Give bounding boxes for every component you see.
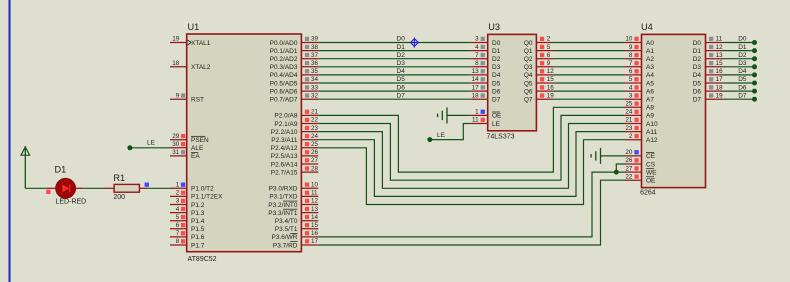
svg-text:D2: D2: [738, 52, 747, 59]
svg-text:23: 23: [311, 125, 319, 132]
svg-text:6: 6: [547, 52, 551, 59]
junction dot net D7: [752, 97, 757, 102]
svg-text:2: 2: [547, 36, 551, 43]
svg-text:2: 2: [176, 190, 180, 197]
wire power to LED anode: [25, 187, 47, 189]
U3 left pin state squares: [481, 37, 485, 122]
power terminal (up arrow): [21, 146, 30, 188]
svg-text:D5: D5: [738, 76, 747, 83]
svg-text:31: 31: [172, 149, 180, 156]
wire net D0: U1 P0.0 to U3 D0: [318, 42, 471, 44]
svg-text:A6: A6: [646, 88, 654, 95]
svg-text:34: 34: [311, 76, 319, 83]
svg-text:25: 25: [311, 141, 319, 148]
svg-text:D3: D3: [492, 64, 501, 71]
svg-text:13: 13: [472, 68, 480, 75]
wire net D2: U1 P0.2 to U3 D2: [318, 58, 471, 60]
IC U4 6264 body: [642, 34, 706, 187]
IC U1 AT89C52 body: [187, 34, 302, 252]
wire net D1 at U4 right: [723, 50, 755, 52]
svg-text:18: 18: [472, 92, 480, 99]
svg-text:OE: OE: [492, 113, 502, 120]
U4 left pin stubs: [625, 43, 642, 181]
U1 clock marker on XTAL1: [188, 40, 192, 45]
svg-text:P3.3/INT1: P3.3/INT1: [268, 210, 298, 217]
svg-text:P1.7: P1.7: [191, 242, 205, 249]
svg-text:9: 9: [629, 44, 633, 51]
svg-text:19: 19: [716, 92, 724, 99]
svg-text:11: 11: [716, 36, 723, 43]
svg-text:D5: D5: [397, 76, 406, 83]
svg-text:D0: D0: [693, 40, 702, 47]
svg-text:D3: D3: [693, 64, 702, 71]
wire net Q4: U3 Q4 to U4 A4: [553, 74, 625, 76]
junction dot WE/CS node: [614, 170, 619, 175]
U1 right pin state squares: [305, 37, 309, 244]
svg-text:P0.1/AD1: P0.1/AD1: [270, 48, 298, 55]
wire net LE at U1 ALE pin: [130, 147, 170, 149]
svg-text:4: 4: [475, 44, 479, 51]
svg-text:7: 7: [176, 230, 180, 237]
svg-text:P1.2: P1.2: [191, 202, 205, 209]
svg-text:6264: 6264: [640, 190, 656, 197]
svg-text:Q7: Q7: [524, 97, 533, 104]
svg-text:D3: D3: [738, 60, 747, 67]
svg-text:A8: A8: [646, 105, 654, 112]
svg-text:26: 26: [311, 149, 319, 156]
svg-text:Q1: Q1: [524, 48, 533, 55]
svg-text:8: 8: [475, 60, 479, 67]
svg-text:LED-RED: LED-RED: [56, 199, 87, 206]
svg-text:P1.4: P1.4: [191, 218, 205, 225]
resistor R1: [105, 184, 148, 192]
svg-text:Q2: Q2: [524, 56, 533, 63]
svg-text:16: 16: [716, 68, 724, 75]
wire R1 to U1 P1.0: [148, 187, 170, 189]
svg-text:27: 27: [311, 157, 319, 164]
svg-text:3: 3: [629, 92, 633, 99]
wire net D1: U1 P0.1 to U3 D1: [318, 50, 471, 52]
svg-text:P2.1/A9: P2.1/A9: [274, 121, 298, 128]
svg-text:P2.4/A12: P2.4/A12: [271, 145, 298, 152]
svg-text:2: 2: [629, 133, 633, 140]
svg-text:D2: D2: [397, 52, 406, 59]
junction dot net D5: [752, 81, 757, 86]
wire net Q6: U3 Q6 to U4 A6: [553, 90, 625, 92]
svg-text:P2.0/A8: P2.0/A8: [274, 113, 298, 120]
svg-text:P0.7/AD7: P0.7/AD7: [270, 97, 298, 104]
wire net D2 at U4 right: [723, 58, 755, 60]
svg-text:5: 5: [547, 44, 551, 51]
svg-text:22: 22: [625, 173, 633, 180]
svg-text:OE: OE: [646, 178, 656, 185]
svg-text:A0: A0: [646, 40, 654, 47]
svg-text:12: 12: [311, 198, 319, 205]
junction dot net D2: [752, 56, 757, 61]
svg-text:A5: A5: [646, 80, 654, 87]
svg-text:11: 11: [311, 190, 318, 197]
svg-text:LE: LE: [147, 140, 156, 147]
svg-text:D7: D7: [738, 92, 747, 99]
svg-text:200: 200: [113, 194, 125, 201]
svg-text:P1.6: P1.6: [191, 234, 205, 241]
U4 right pin stubs: [706, 43, 723, 100]
svg-text:5: 5: [176, 214, 180, 221]
wire U3 OE to ground: [447, 114, 471, 116]
svg-text:Q4: Q4: [524, 72, 533, 79]
svg-text:9: 9: [547, 60, 551, 67]
svg-text:Q6: Q6: [524, 88, 533, 95]
wire net WR: U1 P3.6 to U4 WE: [318, 172, 625, 237]
svg-text:12: 12: [716, 44, 724, 51]
U3 right pin names: [524, 40, 533, 104]
svg-text:R1: R1: [113, 173, 125, 183]
svg-text:39: 39: [311, 36, 319, 43]
svg-text:EA: EA: [191, 153, 200, 160]
svg-text:D7: D7: [492, 97, 501, 104]
svg-text:D4: D4: [397, 68, 406, 75]
U1 right pin stubs: [301, 43, 318, 246]
svg-text:ALE: ALE: [191, 145, 204, 152]
svg-text:D0: D0: [738, 36, 747, 43]
svg-text:18: 18: [716, 84, 724, 91]
svg-text:D6: D6: [397, 84, 406, 91]
IC U3 74LS373 body: [488, 34, 537, 130]
svg-text:P1.1/T2EX: P1.1/T2EX: [191, 194, 223, 201]
svg-text:P0.6/AD6: P0.6/AD6: [270, 88, 298, 95]
svg-text:P3.5/T1: P3.5/T1: [275, 226, 298, 233]
U3 left pin numbers: [472, 36, 480, 124]
svg-text:P3.2/INT0: P3.2/INT0: [268, 202, 298, 209]
svg-text:24: 24: [311, 133, 319, 140]
svg-text:Q3: Q3: [524, 64, 533, 71]
svg-text:1: 1: [176, 182, 180, 189]
wire net A11: U1 P2.3 to U4 A11: [318, 132, 625, 197]
wire net D7: U1 P0.7 to U3 D7: [318, 98, 471, 100]
svg-text:14: 14: [472, 76, 480, 83]
svg-text:CE: CE: [646, 153, 656, 160]
svg-text:A4: A4: [646, 72, 654, 79]
svg-text:6: 6: [176, 222, 180, 229]
svg-text:6: 6: [629, 68, 633, 75]
svg-text:24: 24: [625, 109, 633, 116]
svg-text:WE: WE: [646, 169, 657, 176]
svg-text:26: 26: [625, 157, 633, 164]
R1 right pin state square (blue): [145, 183, 149, 187]
svg-text:PSEN: PSEN: [191, 137, 209, 144]
svg-text:35: 35: [311, 68, 319, 75]
U4 left pin state squares: [634, 37, 638, 179]
wire net Q3: U3 Q3 to U4 A3: [553, 66, 625, 68]
svg-text:23: 23: [625, 125, 633, 132]
U1 left pin state squares: [181, 93, 185, 243]
svg-text:D2: D2: [693, 56, 702, 63]
svg-text:P3.0/RXD: P3.0/RXD: [269, 186, 298, 193]
U3 right pin state squares: [540, 37, 544, 98]
U4 right pin names: [693, 40, 702, 104]
svg-text:D1: D1: [397, 44, 406, 51]
wire net Q5: U3 Q5 to U4 A5: [553, 82, 625, 84]
wire net A10: U1 P2.2 to U4 A10: [318, 124, 625, 189]
svg-text:U1: U1: [188, 22, 200, 32]
svg-text:37: 37: [311, 52, 319, 59]
svg-text:33: 33: [311, 84, 319, 91]
wire net RD: U1 P3.7 to U4 OE: [318, 180, 625, 245]
svg-text:D3: D3: [397, 60, 406, 67]
svg-text:16: 16: [547, 84, 555, 91]
wire U4 CE to ground: [601, 155, 626, 157]
svg-text:D0: D0: [397, 36, 406, 43]
svg-text:P2.2/A10: P2.2/A10: [271, 129, 298, 136]
wire net A9: U1 P2.1 to U4 A9: [318, 115, 625, 180]
svg-text:74LS373: 74LS373: [487, 134, 515, 141]
svg-text:P0.0/AD0: P0.0/AD0: [270, 40, 298, 47]
svg-text:P0.2/AD2: P0.2/AD2: [270, 56, 298, 63]
wire net D3: U1 P0.3 to U3 D3: [318, 66, 471, 68]
svg-text:D6: D6: [693, 88, 702, 95]
svg-text:12: 12: [547, 68, 555, 75]
svg-text:A10: A10: [646, 121, 658, 128]
svg-text:8: 8: [629, 52, 633, 59]
svg-text:LE: LE: [492, 121, 501, 128]
U3 right pin stubs: [536, 43, 553, 100]
svg-text:D2: D2: [492, 56, 501, 63]
wire net D3 at U4 right: [723, 66, 755, 68]
svg-text:A11: A11: [646, 129, 657, 136]
svg-text:A7: A7: [646, 97, 654, 104]
svg-text:8: 8: [176, 238, 180, 245]
svg-text:19: 19: [172, 36, 180, 43]
svg-text:D6: D6: [492, 88, 501, 95]
svg-text:D5: D5: [492, 80, 501, 87]
svg-text:D0: D0: [492, 40, 501, 47]
svg-text:Q5: Q5: [524, 80, 533, 87]
svg-text:P2.3/A11: P2.3/A11: [271, 137, 298, 144]
wire net D4: U1 P0.4 to U3 D4: [318, 74, 471, 76]
ground symbol at U3 OE: [438, 107, 447, 123]
junction dot LE (left): [127, 145, 132, 150]
svg-text:AT89C52: AT89C52: [188, 256, 217, 263]
svg-text:22: 22: [311, 117, 319, 124]
wire net Q0: U3 Q0 to U4 A0: [553, 42, 625, 44]
svg-text:D7: D7: [693, 97, 702, 104]
U4 right pin numbers: [716, 36, 724, 100]
junction dot LE (U3 side): [427, 137, 432, 142]
svg-text:38: 38: [311, 44, 319, 51]
svg-text:XTAL2: XTAL2: [191, 64, 211, 71]
svg-text:3: 3: [475, 36, 479, 43]
svg-text:1: 1: [475, 109, 479, 116]
wire net D0 at U4 right: [723, 42, 755, 44]
wire net D7 at U4 right: [723, 98, 755, 100]
U4 left pin names: [646, 40, 658, 185]
svg-text:D5: D5: [693, 80, 702, 87]
svg-text:30: 30: [172, 141, 180, 148]
svg-text:P1.3: P1.3: [191, 210, 205, 217]
svg-text:32: 32: [311, 92, 319, 99]
svg-text:P3.1/TXD: P3.1/TXD: [269, 194, 297, 201]
wire net D5 at U4 right: [723, 82, 755, 84]
svg-text:4: 4: [176, 206, 180, 213]
wire net Q1: U3 Q1 to U4 A1: [553, 50, 625, 52]
U3 left pin names: [492, 40, 502, 128]
svg-text:P3.7/RD: P3.7/RD: [273, 242, 298, 249]
U4 left pin numbers: [625, 36, 633, 181]
svg-text:D7: D7: [397, 92, 406, 99]
svg-text:P2.5/A13: P2.5/A13: [271, 153, 298, 160]
svg-text:17: 17: [716, 76, 724, 83]
svg-text:7: 7: [629, 60, 633, 67]
U3 left pin stubs: [471, 43, 488, 124]
svg-text:17: 17: [311, 238, 319, 245]
svg-text:25: 25: [625, 101, 633, 108]
svg-text:A1: A1: [646, 48, 654, 55]
svg-text:D4: D4: [738, 68, 747, 75]
wire net Q7: U3 Q7 to U4 A7: [553, 98, 625, 100]
svg-text:P0.5/AD5: P0.5/AD5: [270, 80, 298, 87]
svg-text:P0.3/AD3: P0.3/AD3: [270, 64, 298, 71]
wire net D5: U1 P0.5 to U3 D5: [318, 82, 471, 84]
svg-text:D4: D4: [492, 72, 501, 79]
svg-text:13: 13: [311, 206, 319, 213]
svg-text:10: 10: [625, 36, 633, 43]
U1 left pin numbers: [172, 36, 180, 246]
LED pin state square (red): [46, 190, 50, 194]
svg-text:A3: A3: [646, 64, 654, 71]
svg-text:P1.5: P1.5: [191, 226, 205, 233]
svg-text:P1.0/T2: P1.0/T2: [191, 186, 214, 193]
svg-text:Q0: Q0: [524, 40, 533, 47]
U1 right pin names: [268, 40, 298, 250]
svg-text:9: 9: [176, 92, 180, 99]
svg-text:4: 4: [629, 84, 633, 91]
wire net D4 at U4 right: [723, 74, 755, 76]
junction dot net D4: [752, 72, 757, 77]
U1 right pin numbers: [311, 36, 319, 246]
wire net A8: U1 P2.0 to U4 A8: [318, 107, 625, 172]
svg-text:A9: A9: [646, 113, 654, 120]
svg-text:15: 15: [311, 222, 319, 229]
svg-text:14: 14: [311, 214, 319, 221]
U1 left pin names: [191, 40, 223, 250]
svg-text:21: 21: [625, 117, 633, 124]
svg-text:A2: A2: [646, 56, 654, 63]
svg-text:18: 18: [172, 60, 180, 67]
svg-text:P2.7/A15: P2.7/A15: [271, 169, 298, 176]
origin marker (blue diamond with cross) on net D0: [409, 38, 419, 48]
svg-text:CS: CS: [646, 161, 656, 168]
svg-text:D4: D4: [693, 72, 702, 79]
svg-text:D6: D6: [738, 84, 747, 91]
svg-text:29: 29: [172, 133, 180, 140]
svg-text:27: 27: [625, 165, 633, 172]
svg-text:13: 13: [716, 52, 724, 59]
svg-text:P2.6/A14: P2.6/A14: [271, 161, 298, 168]
svg-text:P0.4/AD4: P0.4/AD4: [270, 72, 298, 79]
svg-text:15: 15: [716, 60, 724, 67]
U4 right pin state squares: [709, 37, 713, 98]
sheet border (blue): [9, 0, 11, 282]
wire net D6: U1 P0.6 to U3 D6: [318, 90, 471, 92]
wire LED cathode to R1: [83, 187, 104, 189]
svg-text:A12: A12: [646, 137, 658, 144]
wire net Q2: U3 Q2 to U4 A2: [553, 58, 625, 60]
svg-text:XTAL1: XTAL1: [191, 40, 211, 47]
svg-text:3: 3: [176, 198, 180, 205]
svg-text:15: 15: [547, 76, 555, 83]
U1 left pin stubs: [170, 43, 187, 246]
wire net D6 at U4 right: [723, 90, 755, 92]
U3 right pin numbers: [547, 36, 555, 100]
wire net A12: U1 P2.4 to U4 A12: [318, 140, 625, 205]
svg-text:36: 36: [311, 60, 319, 67]
svg-text:D1: D1: [492, 48, 501, 55]
svg-text:D1: D1: [738, 44, 747, 51]
svg-text:D1: D1: [693, 48, 702, 55]
svg-text:28: 28: [311, 165, 319, 172]
svg-text:D1: D1: [55, 165, 67, 175]
junction dot net D3: [752, 64, 757, 69]
svg-text:7: 7: [475, 52, 479, 59]
svg-text:19: 19: [547, 92, 555, 99]
ground symbol at U4 CE: [591, 148, 600, 164]
svg-text:16: 16: [311, 230, 319, 237]
svg-text:RST: RST: [191, 97, 204, 104]
svg-text:P3.6/WR: P3.6/WR: [271, 234, 297, 241]
svg-text:LE: LE: [437, 132, 446, 139]
svg-text:10: 10: [311, 182, 319, 189]
svg-text:20: 20: [625, 149, 633, 156]
junction dot net D1: [752, 48, 757, 53]
svg-text:U3: U3: [488, 22, 500, 32]
LED D1: [47, 178, 83, 198]
svg-text:U4: U4: [641, 22, 653, 32]
wire net LE at U3 LE pin: [430, 124, 471, 140]
svg-text:5: 5: [629, 76, 633, 83]
wire branch to U4 CS: [616, 164, 625, 172]
svg-text:21: 21: [311, 109, 319, 116]
svg-text:P3.4/T0: P3.4/T0: [275, 218, 298, 225]
junction dot net D0: [752, 40, 757, 45]
svg-text:17: 17: [472, 84, 480, 91]
junction dot net D6: [752, 89, 757, 94]
svg-text:11: 11: [472, 117, 479, 124]
